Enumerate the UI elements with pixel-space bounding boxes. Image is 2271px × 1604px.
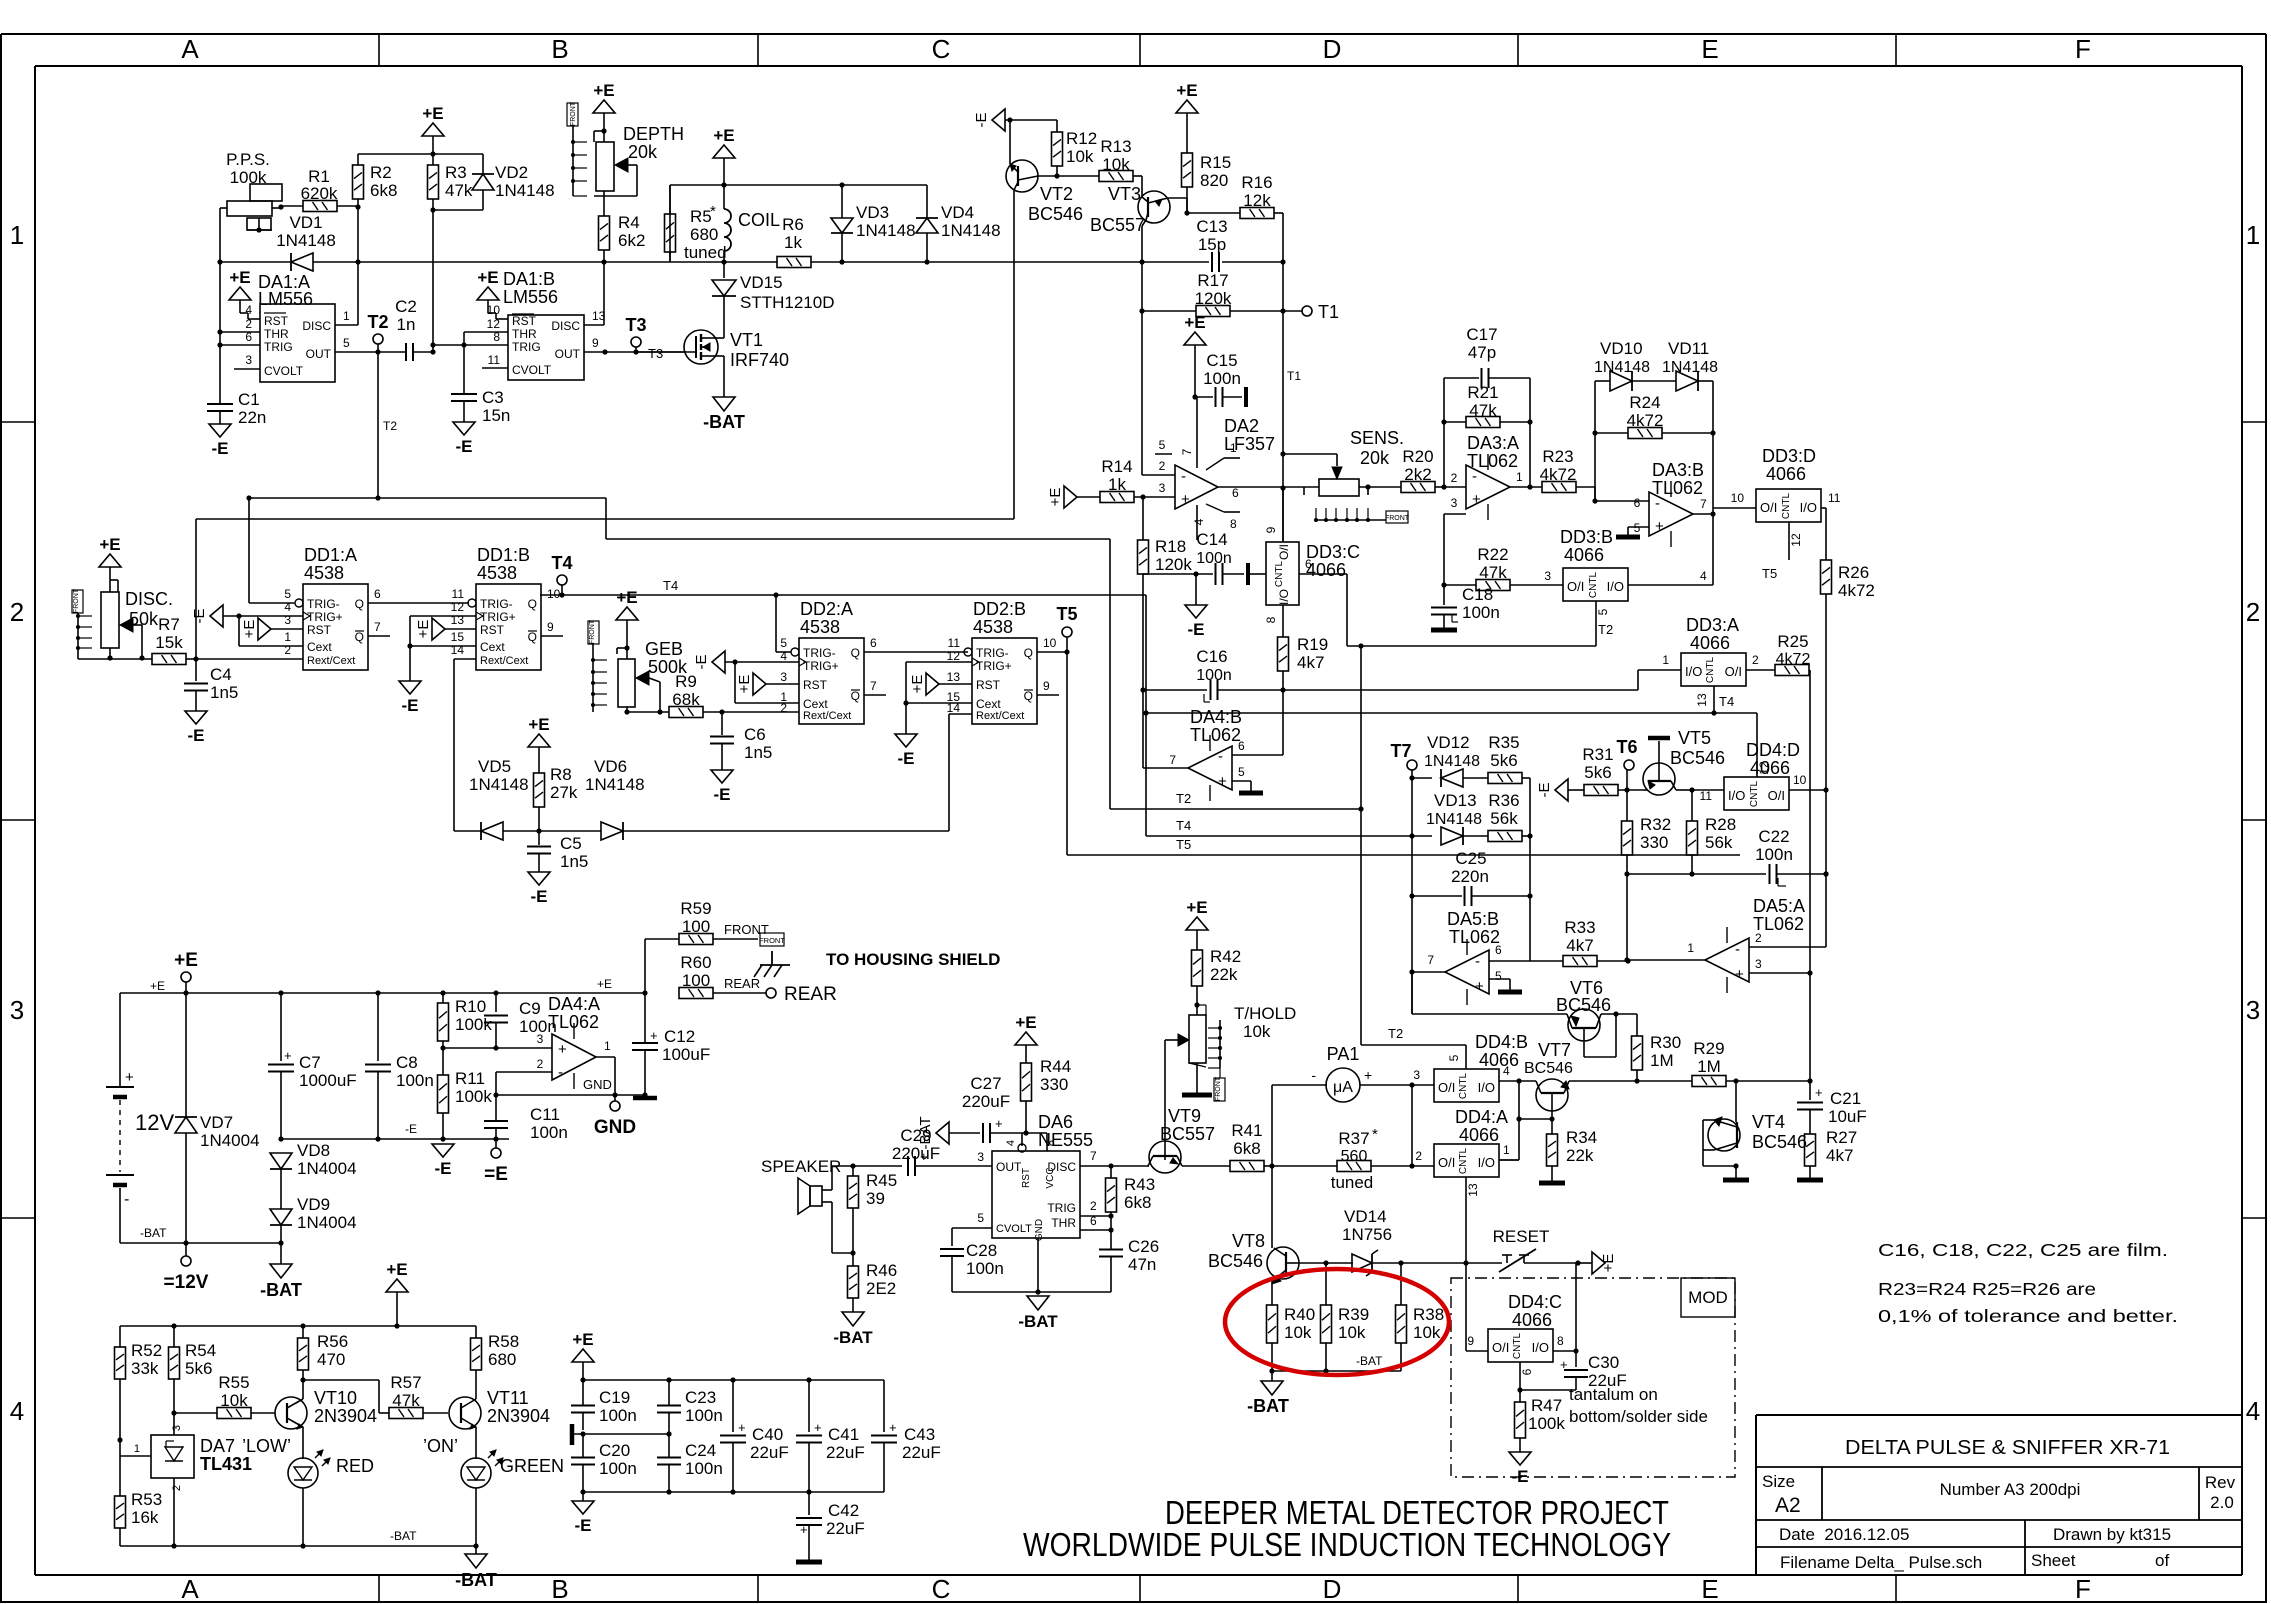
diode VD15 STTH1210D <box>723 262 725 278</box>
svg-text:1000uF: 1000uF <box>299 1071 357 1090</box>
svg-text:TRIG-: TRIG- <box>976 646 1009 660</box>
svg-text:T2: T2 <box>1598 622 1613 637</box>
svg-text:1N4148: 1N4148 <box>1426 811 1482 828</box>
potentiometer GEB 500k <box>618 659 635 707</box>
resistor R7 15k <box>152 654 186 665</box>
svg-text:C41: C41 <box>828 1425 859 1444</box>
T/HOLD header comb <box>1219 1020 1221 1068</box>
svg-text:R9: R9 <box>675 672 697 691</box>
svg-text:+E: +E <box>241 620 258 639</box>
svg-text:O/I: O/I <box>1438 1155 1455 1170</box>
svg-text:-BAT: -BAT <box>260 1280 302 1300</box>
svg-text:+E: +E <box>597 977 612 991</box>
svg-text:R42: R42 <box>1210 947 1241 966</box>
svg-text:A: A <box>181 34 199 64</box>
wire DA5:A -in <box>1749 946 1826 948</box>
svg-text:R16: R16 <box>1241 173 1272 192</box>
capacitor C8 100n <box>377 993 379 1061</box>
resistor R35 5k6 <box>1488 773 1522 784</box>
power +E above DA2 <box>1184 332 1206 345</box>
svg-text:OUT: OUT <box>996 1160 1022 1174</box>
svg-text:100n: 100n <box>530 1123 568 1142</box>
svg-text:C3: C3 <box>482 388 504 407</box>
svg-text:100n: 100n <box>599 1406 637 1425</box>
svg-text:1: 1 <box>284 630 291 644</box>
switch DD4:C 4066 <box>1488 1329 1553 1362</box>
svg-text:100k: 100k <box>455 1015 492 1034</box>
svg-text:5: 5 <box>1447 1054 1461 1061</box>
wire DA2 output <box>1218 486 1283 488</box>
svg-text:+E: +E <box>528 715 549 734</box>
svg-text:I/O: I/O <box>1532 1340 1549 1355</box>
svg-text:-E: -E <box>693 655 710 670</box>
svg-text:VD5: VD5 <box>478 757 511 776</box>
svg-text:-E: -E <box>714 785 731 804</box>
resistor R24 4k72 <box>1595 432 1628 434</box>
wire LED top rail <box>120 1325 476 1327</box>
wire DA4:A out/GND <box>596 1056 615 1058</box>
svg-text:+E: +E <box>477 268 498 287</box>
svg-text:RST: RST <box>803 678 828 692</box>
svg-text:-E: -E <box>1188 620 1205 639</box>
svg-text:VD10: VD10 <box>1600 339 1643 358</box>
resistor R60 100 <box>679 988 713 999</box>
FRONT tag (DISC) <box>72 590 83 613</box>
svg-text:100uF: 100uF <box>662 1045 710 1064</box>
power -E arrow left (VT2) <box>992 109 1005 131</box>
svg-text:C42: C42 <box>828 1501 859 1520</box>
svg-text:-E: -E <box>531 887 548 906</box>
svg-text:FRONT: FRONT <box>589 619 596 644</box>
svg-text:R36: R36 <box>1488 791 1519 810</box>
capacitor C15 100n <box>1195 396 1213 398</box>
resistor R21 47k <box>1466 417 1500 428</box>
svg-text:+E: +E <box>713 126 734 145</box>
resistor R29 1M <box>1637 1080 1692 1082</box>
svg-text:1N4004: 1N4004 <box>200 1131 260 1150</box>
svg-text:CNTL: CNTL <box>1458 1148 1469 1175</box>
svg-text:T6: T6 <box>1616 737 1637 757</box>
power -E below C5 <box>528 872 550 885</box>
svg-text:7: 7 <box>1700 497 1707 511</box>
svg-text:VD14: VD14 <box>1344 1207 1387 1226</box>
svg-text:VT3: VT3 <box>1108 184 1141 204</box>
svg-text:1N4148: 1N4148 <box>941 221 1001 240</box>
svg-text:6k2: 6k2 <box>618 231 645 250</box>
svg-text:DA7: DA7 <box>200 1436 235 1456</box>
test point T6 <box>1624 760 1634 770</box>
svg-text:100k: 100k <box>1528 1414 1565 1433</box>
svg-text:E: E <box>1701 34 1718 64</box>
svg-text:I/O: I/O <box>1478 1080 1495 1095</box>
svg-text:R55: R55 <box>218 1373 249 1392</box>
svg-text:I/O: I/O <box>1685 664 1702 679</box>
resistor R12 10k <box>1056 120 1058 132</box>
svg-text:R47: R47 <box>1531 1396 1562 1415</box>
svg-text:-E: -E <box>402 696 419 715</box>
IC DA7 TL431 <box>151 1435 194 1478</box>
wire DA4:B out <box>1143 767 1188 769</box>
svg-text:R15: R15 <box>1200 153 1231 172</box>
svg-text:+: + <box>1655 518 1664 535</box>
svg-text:DA4:B: DA4:B <box>1190 707 1242 727</box>
power -BAT arrow (C27) <box>936 1122 949 1144</box>
op-amp DA3:B TL062 <box>1649 492 1693 536</box>
svg-text:6k8: 6k8 <box>370 181 397 200</box>
svg-text:-: - <box>1735 941 1740 958</box>
power +E arrow (RESET) <box>1578 1262 1592 1264</box>
svg-text:15k: 15k <box>155 633 183 652</box>
resistor R54 5k6 <box>173 1326 175 1347</box>
svg-text:VD4: VD4 <box>941 203 974 222</box>
svg-text:7: 7 <box>1180 448 1194 455</box>
potentiometer T/HOLD 10k <box>1189 1015 1206 1063</box>
svg-text:+: + <box>1815 1085 1823 1100</box>
wire DA3:B +in gnd <box>1628 526 1649 528</box>
svg-text:1n5: 1n5 <box>744 743 772 762</box>
svg-text:Rext/Cext: Rext/Cext <box>803 710 851 722</box>
capacitor C4 1n5 <box>195 659 197 681</box>
svg-text:1: 1 <box>343 309 350 323</box>
svg-text:39: 39 <box>866 1189 885 1208</box>
wire DA5:A out <box>1627 959 1705 961</box>
svg-text:47k: 47k <box>1469 401 1497 420</box>
svg-text:SPEAKER: SPEAKER <box>761 1157 841 1176</box>
terminal REAR <box>766 988 776 998</box>
svg-text:13: 13 <box>451 613 465 627</box>
svg-text:120k: 120k <box>1155 555 1192 574</box>
wire VD2/R3 node down <box>432 210 434 352</box>
terminal GND <box>614 1095 616 1101</box>
resistor R44 330 <box>1025 1062 1027 1064</box>
svg-text:2: 2 <box>1090 1199 1097 1213</box>
svg-text:CVOLT: CVOLT <box>264 364 304 378</box>
svg-text:+E: +E <box>229 268 250 287</box>
svg-text:+E: +E <box>99 535 120 554</box>
svg-text:C13: C13 <box>1196 217 1227 236</box>
svg-text:+: + <box>1475 978 1484 995</box>
wire R23 to DA3:B <box>1576 486 1595 488</box>
diode VD4 1N4148 <box>926 185 928 218</box>
svg-text:-E: -E <box>212 439 229 458</box>
top rail to +E <box>358 153 483 155</box>
svg-text:3: 3 <box>1755 957 1762 971</box>
svg-text:DA3:B: DA3:B <box>1652 460 1704 480</box>
wire R56 to R57 <box>303 1379 379 1381</box>
power +E above R44 <box>1015 1032 1037 1045</box>
svg-text:100n: 100n <box>966 1259 1004 1278</box>
svg-text:100n: 100n <box>685 1459 723 1478</box>
svg-text:O/I: O/I <box>1725 664 1742 679</box>
potentiometer DISC. 50k <box>101 592 119 648</box>
svg-text:FRONT: FRONT <box>759 936 785 945</box>
svg-text:1n5: 1n5 <box>560 852 588 871</box>
svg-text:-BAT: -BAT <box>1018 1312 1058 1331</box>
diode VD9 1N4004 <box>270 1209 292 1225</box>
IC DD1:B 4538 <box>476 584 541 670</box>
svg-text:DD3:B: DD3:B <box>1560 527 1613 547</box>
svg-text:Q: Q <box>851 646 860 660</box>
LED RED <box>288 1458 318 1488</box>
terminal +E <box>181 972 191 982</box>
power -E arrow (DD2:A TRIG+) <box>712 651 725 673</box>
svg-text:-E: -E <box>898 749 915 768</box>
resistor R15 820 <box>1182 153 1193 187</box>
resistor R18 120k <box>1142 497 1144 540</box>
svg-text:T5: T5 <box>1176 837 1191 852</box>
resistor R9 68k <box>669 707 703 718</box>
capacitor C43 22uF <box>883 1380 885 1432</box>
svg-text:620k: 620k <box>301 184 338 203</box>
svg-text:Cext: Cext <box>307 640 332 654</box>
diode VD6 1N4148 <box>601 822 623 840</box>
svg-text:RST: RST <box>512 314 537 328</box>
wire DA5:B +in gnd <box>1489 978 1510 980</box>
LED GREEN <box>461 1458 491 1488</box>
meter PA1 uA <box>1326 1068 1360 1102</box>
svg-text:C28: C28 <box>966 1241 997 1260</box>
resistor R37* 560 tuned <box>1272 1165 1337 1167</box>
svg-text:4066: 4066 <box>1459 1125 1499 1145</box>
capacitor C12 100uF <box>644 993 646 1043</box>
svg-text:+E: +E <box>422 104 443 123</box>
svg-text:RST: RST <box>480 623 505 637</box>
svg-text:Rext/Cext: Rext/Cext <box>480 655 528 667</box>
svg-text:DD3:D: DD3:D <box>1762 446 1816 466</box>
power -BAT below VT1 <box>713 397 735 411</box>
test point T4 <box>557 575 567 585</box>
svg-text:5: 5 <box>1495 969 1502 983</box>
wire DA1:A OUT <box>335 351 406 353</box>
svg-text:C: C <box>932 1574 951 1604</box>
svg-text:-E: -E <box>973 113 990 128</box>
svg-text:T2: T2 <box>1388 1026 1403 1041</box>
wire cap block bottom rail <box>583 1491 884 1493</box>
IC DA6 NE555 <box>992 1151 1080 1238</box>
svg-text:10: 10 <box>547 587 561 601</box>
svg-text:22k: 22k <box>1566 1146 1594 1165</box>
wire VD6 line to DD2:B pin14 <box>948 714 950 831</box>
svg-text:4066: 4066 <box>1479 1050 1519 1070</box>
svg-text:Drawn by kt315: Drawn by kt315 <box>2053 1525 2171 1544</box>
wire DA4:B +in gnd <box>1232 780 1251 782</box>
resistor R17 120k <box>1142 310 1196 312</box>
svg-text:VD6: VD6 <box>594 757 627 776</box>
svg-text:C9: C9 <box>519 999 541 1018</box>
svg-text:I/O: I/O <box>1478 1155 1495 1170</box>
svg-text:+E: +E <box>1015 1013 1036 1032</box>
svg-text:C21: C21 <box>1830 1089 1861 1108</box>
svg-text:6: 6 <box>1634 496 1641 510</box>
IC DD1:A 4538 <box>303 584 368 670</box>
capacitor C1 22n <box>219 345 221 404</box>
svg-text:R27: R27 <box>1826 1128 1857 1147</box>
svg-text:VD9: VD9 <box>297 1195 330 1214</box>
svg-text:4066: 4066 <box>1306 560 1346 580</box>
svg-text:Q: Q <box>355 630 364 644</box>
svg-text:VD8: VD8 <box>297 1141 330 1160</box>
svg-text:T5: T5 <box>1762 566 1777 581</box>
potentiometer SENS 20k <box>1319 479 1359 496</box>
svg-text:BC546: BC546 <box>1524 1060 1573 1077</box>
svg-text:VT10: VT10 <box>314 1388 357 1408</box>
thick bar node <box>570 1424 575 1445</box>
svg-text:5: 5 <box>780 636 787 650</box>
op-amp DA2 LF357 <box>1175 465 1218 509</box>
svg-text:VD13: VD13 <box>1434 791 1477 810</box>
svg-text:-BAT: -BAT <box>917 1116 934 1149</box>
svg-text:R43: R43 <box>1124 1175 1155 1194</box>
svg-text:VD15: VD15 <box>740 273 783 292</box>
svg-text:C16, C18, C22, C25 are film.: C16, C18, C22, C25 are film. <box>1878 1240 2168 1260</box>
resistor R16 12k <box>1187 212 1240 214</box>
resistor R39 10k <box>1325 1263 1327 1305</box>
svg-text:560: 560 <box>1341 1148 1368 1165</box>
resistor R11 100k <box>442 1048 444 1075</box>
resistor R22 47k <box>1444 584 1476 586</box>
svg-text:CNTL: CNTL <box>1512 1333 1523 1360</box>
svg-text:-BAT: -BAT <box>703 412 745 432</box>
svg-text:T3: T3 <box>648 346 663 361</box>
svg-text:R2: R2 <box>370 163 392 182</box>
diode VD7 1N4004 <box>185 993 187 1117</box>
power -E below DD1:B <box>399 681 421 694</box>
svg-text:56k: 56k <box>1705 833 1733 852</box>
svg-text:11: 11 <box>1828 491 1841 505</box>
svg-text:DA5:B: DA5:B <box>1447 909 1499 929</box>
svg-text:4066: 4066 <box>1512 1310 1552 1330</box>
svg-text:LM556: LM556 <box>503 287 558 307</box>
svg-text:DD3:A: DD3:A <box>1686 615 1739 635</box>
svg-text:GREEN: GREEN <box>500 1456 564 1476</box>
svg-text:-: - <box>1475 953 1480 970</box>
transistor VT11 2N3904 <box>449 1397 481 1429</box>
resistor R31 5k6 <box>1584 785 1618 796</box>
svg-text:R40: R40 <box>1284 1305 1315 1324</box>
header dots column (GEB) <box>592 644 594 712</box>
capacitor C23 100n <box>668 1380 670 1405</box>
svg-text:-BAT: -BAT <box>455 1570 497 1590</box>
svg-text:D: D <box>1323 1574 1342 1604</box>
svg-text:47k: 47k <box>392 1391 420 1410</box>
svg-text:CNTL: CNTL <box>1458 1073 1469 1100</box>
svg-text:-E: -E <box>1536 783 1553 798</box>
power -E below DD2:B <box>895 734 917 747</box>
svg-text:C23: C23 <box>685 1388 716 1407</box>
diode VD5 1N4148 <box>481 822 503 840</box>
svg-text:R17: R17 <box>1197 271 1228 290</box>
svg-text:100n: 100n <box>1196 550 1232 567</box>
svg-text:22uF: 22uF <box>826 1443 865 1462</box>
svg-text:TL062: TL062 <box>1190 725 1241 745</box>
svg-text:330: 330 <box>1040 1075 1068 1094</box>
svg-text:R57: R57 <box>390 1373 421 1392</box>
diode VD12 1N4148 <box>1412 777 1432 779</box>
svg-text:CNTL: CNTL <box>1749 781 1760 808</box>
op-amp DA3:A TL062 <box>1466 465 1510 509</box>
svg-text:6: 6 <box>1520 1368 1534 1375</box>
svg-text:BC557: BC557 <box>1160 1124 1215 1144</box>
svg-text:1: 1 <box>1687 941 1694 955</box>
terminal =12V <box>185 1243 187 1256</box>
svg-text:A2: A2 <box>1775 1494 1801 1517</box>
resistor R41 6k8 <box>1230 1161 1264 1172</box>
svg-text:2.0: 2.0 <box>2210 1493 2234 1512</box>
wire DA5:A +in net <box>1809 973 1811 1081</box>
IC DA1:B LM556 <box>508 315 584 380</box>
capacitor C30 22uF <box>1575 1263 1577 1351</box>
power +E coil <box>713 145 735 158</box>
resistor R20 2k2 <box>1401 482 1435 493</box>
wire DA6 DISC out <box>1080 1165 1149 1167</box>
svg-text:R25: R25 <box>1777 632 1808 651</box>
IC DD2:A 4538 <box>799 638 864 724</box>
svg-text:100n: 100n <box>396 1071 434 1090</box>
svg-text:3: 3 <box>780 670 787 684</box>
svg-text:10: 10 <box>1043 636 1057 650</box>
svg-text:R11: R11 <box>455 1069 485 1088</box>
diode VD2 1N4148 <box>482 154 484 174</box>
svg-text:R60: R60 <box>680 953 711 972</box>
capacitor C7 1000uF <box>280 993 282 1061</box>
svg-text:1: 1 <box>2246 220 2260 250</box>
svg-text:3: 3 <box>1544 569 1551 583</box>
svg-text:GEB: GEB <box>645 639 683 659</box>
capacitor C19 100n <box>582 1380 584 1405</box>
svg-text:tuned: tuned <box>1331 1173 1374 1192</box>
svg-text:T3: T3 <box>625 315 646 335</box>
svg-text:VT2: VT2 <box>1040 184 1073 204</box>
svg-text:CNTL: CNTL <box>1705 657 1716 684</box>
wire DA1:B CVOLT stub <box>482 367 508 369</box>
svg-text:C: C <box>932 34 951 64</box>
wire net T4 run <box>540 594 1146 596</box>
svg-text:100n: 100n <box>1203 369 1241 388</box>
svg-text:3: 3 <box>537 1032 544 1046</box>
wire DA4:A -in <box>496 1071 552 1073</box>
svg-text:22uF: 22uF <box>826 1519 865 1538</box>
svg-text:BC546: BC546 <box>1752 1132 1807 1152</box>
svg-text:1: 1 <box>1662 653 1669 667</box>
svg-text:7: 7 <box>374 620 381 634</box>
svg-text:1: 1 <box>604 1039 611 1053</box>
svg-text:-E: -E <box>1512 1467 1529 1486</box>
svg-text:THR: THR <box>1051 1216 1076 1230</box>
svg-text:O/I: O/I <box>1768 788 1785 803</box>
wire DA6 GND to -BAT <box>1037 1238 1039 1292</box>
resistor R34 22k <box>1551 1119 1553 1134</box>
svg-text:10k: 10k <box>1102 155 1130 174</box>
svg-text:100n: 100n <box>685 1406 723 1425</box>
svg-text:Size: Size <box>1762 1472 1795 1491</box>
svg-text:1: 1 <box>1503 1143 1510 1157</box>
wire DA4:B -in <box>1232 754 1283 756</box>
svg-text:R46: R46 <box>866 1261 897 1280</box>
svg-text:+: + <box>125 1069 134 1086</box>
svg-text:C17: C17 <box>1466 325 1497 344</box>
svg-text:2: 2 <box>1451 471 1458 485</box>
wire speaker node <box>850 1163 855 1168</box>
wire DD1:A Cext tie <box>238 616 240 646</box>
svg-text:7: 7 <box>870 679 877 693</box>
svg-text:FRONT: FRONT <box>724 922 769 937</box>
IC DA1:A LM556 <box>260 304 335 382</box>
terminal =E <box>495 1139 497 1148</box>
svg-text:12: 12 <box>487 317 501 331</box>
sheet border frame <box>1 33 2266 35</box>
resistor R30 1M <box>1632 1036 1643 1070</box>
diode VD3 1N4148 <box>841 185 843 218</box>
